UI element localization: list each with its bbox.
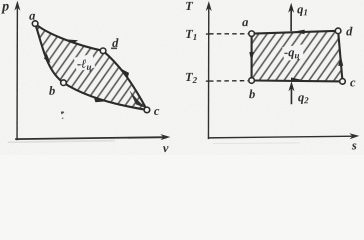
arrow c to d on right edge [338, 55, 343, 66]
paper noise [0, 0, 1, 1]
adiabat curve a-b (left) [35, 24, 64, 83]
isotherm curve d-a (top) [35, 24, 103, 51]
s-axis [208, 133, 360, 139]
point d right [335, 28, 341, 34]
point c right [340, 79, 346, 85]
ink wedge near c [129, 90, 146, 108]
cycle rectangle a-d-c-b [251, 31, 342, 82]
point a [32, 21, 38, 27]
arrow d to a on top edge [294, 30, 305, 35]
q1 arrow [288, 3, 294, 31]
smudge under d [111, 47, 117, 49]
arrow a to b on left curve [44, 53, 51, 63]
tick T2 [206, 80, 209, 82]
point c [144, 107, 150, 113]
dashed line T2-b [209, 80, 248, 83]
hatched rectangle area [248, 28, 346, 84]
arrow a to b on left edge [249, 52, 254, 62]
hatched cycle area [30, 20, 155, 115]
dashed line T1-a [209, 33, 248, 35]
q2 arrow [288, 81, 294, 104]
axis shadow artifact right [213, 143, 300, 144]
arrow c to d on right curve [120, 68, 129, 79]
adiabat curve c-d (right) [103, 51, 147, 110]
point a right [249, 31, 255, 37]
point b right [249, 78, 255, 84]
arrow b to c on bottom edge [291, 77, 302, 82]
tick T1 [206, 33, 209, 35]
v-axis [15, 134, 170, 140]
point b [61, 80, 67, 86]
isotherm curve b-c (bottom) [63, 83, 147, 110]
axis shadow artifact [8, 140, 115, 142]
point d [100, 48, 106, 54]
T-axis [205, 1, 211, 139]
p-axis [14, 1, 20, 141]
arrow b to c on bottom curve [93, 96, 105, 102]
ink speck [61, 111, 64, 114]
arrow d to a on top curve [65, 39, 79, 43]
